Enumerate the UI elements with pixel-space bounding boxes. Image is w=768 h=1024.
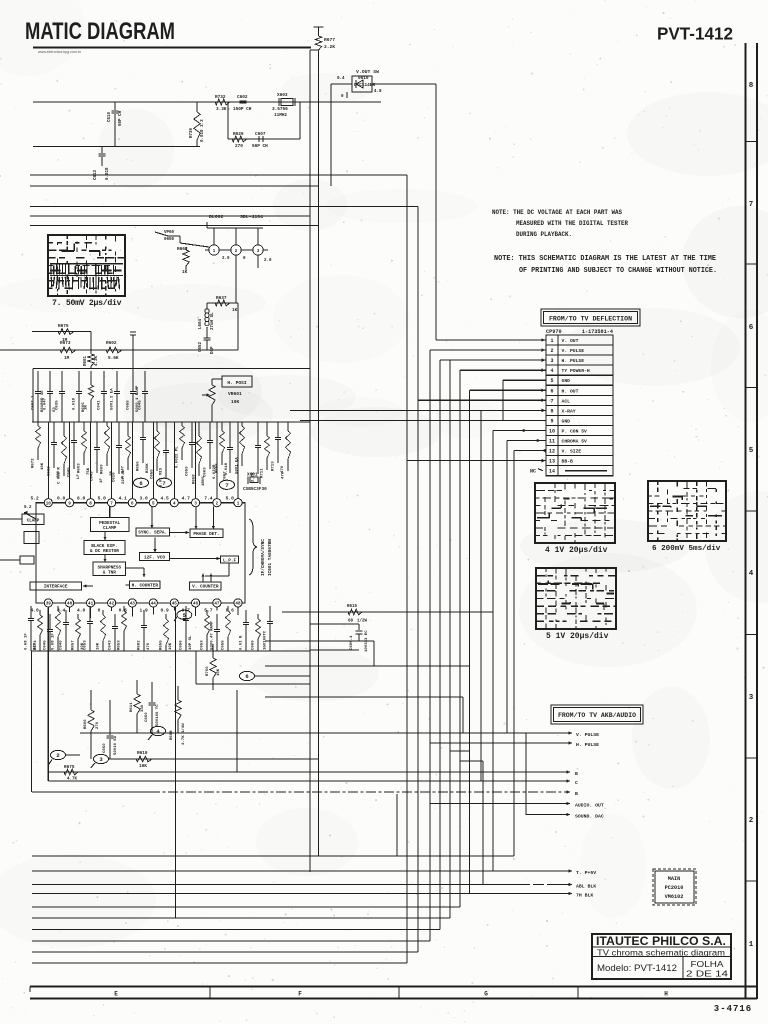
- svg-text:1K: 1K: [232, 308, 238, 313]
- svg-text:50V10 EA: 50V10 EA: [114, 735, 118, 755]
- svg-text:11MHz: 11MHz: [274, 113, 288, 118]
- svg-text:6: 6: [550, 388, 553, 394]
- svg-text:C613: C613: [94, 169, 98, 180]
- svg-text:R713: R713: [272, 461, 276, 471]
- svg-text:B: B: [575, 791, 578, 797]
- svg-text:L.P.F: L.P.F: [223, 558, 237, 563]
- svg-text:PC2010: PC2010: [665, 885, 684, 891]
- svg-text:2.7K: 2.7K: [252, 472, 256, 482]
- svg-text:www.eletronica.hpg.com.br: www.eletronica.hpg.com.br: [38, 50, 82, 54]
- svg-text:6: 6: [139, 480, 142, 487]
- svg-text:VR601: VR601: [228, 391, 242, 397]
- svg-text:Modelo: PVT-1412: Modelo: PVT-1412: [597, 963, 677, 973]
- svg-text:TV chroma schematic diagram: TV chroma schematic diagram: [597, 948, 725, 958]
- svg-text:R601: R601: [84, 355, 88, 366]
- svg-text:41: 41: [88, 602, 94, 607]
- svg-text:3: 3: [194, 502, 197, 507]
- svg-text:C669: C669: [252, 640, 256, 650]
- svg-text:FROM/TO TV DEFLECTION: FROM/TO TV DEFLECTION: [549, 316, 632, 323]
- svg-text:LF: LF: [77, 474, 81, 479]
- svg-text:0.9: 0.9: [161, 608, 170, 614]
- svg-text:ACL: ACL: [562, 398, 571, 404]
- svg-text:SOUND. DAC: SOUND. DAC: [575, 814, 604, 820]
- svg-text:AUDIO. OUT: AUDIO. OUT: [575, 803, 604, 809]
- svg-text:40: 40: [67, 602, 73, 607]
- svg-text:C655: C655: [127, 400, 131, 410]
- svg-text:2.0: 2.0: [222, 257, 230, 261]
- svg-text:H. PULSE: H. PULSE: [562, 358, 585, 364]
- svg-text:C645: C645: [139, 400, 143, 410]
- svg-text:X603: X603: [277, 93, 288, 98]
- svg-text:NC: NC: [530, 469, 536, 475]
- svg-text:R615: R615: [347, 605, 358, 609]
- svg-text:270: 270: [34, 642, 38, 650]
- svg-text:0.68 1F: 0.68 1F: [25, 633, 29, 650]
- svg-text:C 022 R: C 022 R: [58, 467, 62, 484]
- svg-text:150P CH: 150P CH: [233, 107, 252, 112]
- svg-text:10K: 10K: [139, 764, 147, 769]
- svg-text:C616: C616: [113, 472, 117, 482]
- svg-text:R609: R609: [101, 464, 105, 474]
- svg-text:4.8: 4.8: [374, 90, 382, 94]
- svg-text:SDL-4104: SDL-4104: [240, 214, 263, 220]
- svg-text:0: 0: [98, 608, 101, 614]
- svg-text:0.0022 PL: 0.0022 PL: [176, 446, 180, 468]
- svg-text:V. PULSE: V. PULSE: [562, 348, 585, 354]
- svg-text:2: 2: [550, 348, 553, 354]
- svg-text:F: F: [298, 991, 302, 998]
- svg-text:6.0: 6.0: [77, 496, 86, 502]
- svg-text:OF PRINTING AND SUBJECT TO CHA: OF PRINTING AND SUBJECT TO CHANGE WITHOU…: [519, 267, 717, 275]
- svg-text:R606: R606: [84, 719, 88, 729]
- svg-text:VM6102: VM6102: [665, 894, 684, 900]
- svg-text:0.4: 0.4: [337, 77, 345, 81]
- svg-text:1R: 1R: [85, 405, 89, 410]
- svg-text:270: 270: [96, 721, 100, 729]
- svg-text:R675: R675: [58, 324, 69, 329]
- svg-text:7.4: 7.4: [204, 496, 213, 502]
- svg-text:H: H: [664, 991, 668, 998]
- svg-text:10K: 10K: [231, 399, 240, 405]
- svg-text:44: 44: [151, 602, 157, 607]
- svg-text:R682: R682: [138, 640, 142, 650]
- svg-text:H. PULSE: H. PULSE: [576, 742, 599, 748]
- svg-text:R700: R700: [206, 666, 210, 676]
- svg-text:5.0: 5.0: [226, 496, 235, 502]
- svg-text:50V1.2 EA: 50V1.2 EA: [111, 388, 115, 410]
- svg-text:3: 3: [749, 694, 754, 702]
- svg-text:R677: R677: [324, 37, 335, 43]
- svg-text:5: 5: [749, 447, 754, 455]
- svg-text:R650: R650: [137, 461, 141, 471]
- svg-text:CLAMP: CLAMP: [27, 520, 40, 524]
- svg-text:270: 270: [235, 144, 243, 149]
- svg-text:3.3K: 3.3K: [216, 107, 227, 112]
- svg-text:R672: R672: [32, 458, 36, 468]
- svg-text:9: 9: [550, 418, 553, 424]
- svg-text:R655: R655: [160, 640, 164, 650]
- svg-text:DL602: DL602: [209, 214, 224, 220]
- svg-text:6: 6: [749, 324, 754, 332]
- svg-text:R711: R711: [261, 468, 265, 478]
- svg-text:1: 1: [237, 502, 240, 507]
- svg-text:50V1 EA: 50V1 EA: [236, 457, 240, 474]
- svg-text:2.2K: 2.2K: [324, 44, 335, 50]
- svg-text:H. COUNTER: H. COUNTER: [132, 583, 159, 588]
- svg-text:4.1: 4.1: [119, 496, 128, 502]
- svg-text:NOTE: THE DC VOLTAGE AT EACH P: NOTE: THE DC VOLTAGE AT EACH PART WAS: [492, 209, 622, 216]
- svg-text:FOLHA: FOLHA: [691, 959, 724, 969]
- svg-text:R653: R653: [118, 640, 122, 650]
- svg-text:R668: R668: [177, 247, 188, 252]
- svg-text:7: 7: [225, 482, 228, 489]
- svg-text:4.0: 4.0: [77, 608, 86, 614]
- svg-text:5.0: 5.0: [98, 496, 107, 502]
- svg-text:9: 9: [68, 502, 71, 507]
- svg-text:42: 42: [109, 602, 115, 607]
- svg-text:VP60: VP60: [164, 231, 175, 235]
- svg-text:GND: GND: [562, 418, 571, 424]
- svg-text:C: C: [575, 780, 578, 786]
- svg-text:C655: C655: [151, 469, 155, 479]
- svg-text:3.0: 3.0: [140, 496, 149, 502]
- svg-text:47: 47: [214, 602, 220, 607]
- svg-text:ABL BLK: ABL BLK: [576, 884, 596, 890]
- svg-text:0.01 M1S: 0.01 M1S: [160, 467, 164, 487]
- svg-text:C640: C640: [60, 640, 64, 650]
- svg-text:CP970: CP970: [546, 329, 562, 335]
- svg-text:7: 7: [550, 398, 553, 404]
- svg-text:10K: 10K: [217, 668, 221, 676]
- svg-text:& DC RESTOR: & DC RESTOR: [90, 549, 119, 554]
- svg-text:E: E: [114, 991, 118, 998]
- svg-text:T. P+5V: T. P+5V: [576, 870, 596, 876]
- svg-text:10K: 10K: [169, 642, 173, 650]
- svg-text:V.OUT SW: V.OUT SW: [356, 69, 379, 75]
- svg-text:MATIC DIAGRAM: MATIC DIAGRAM: [25, 18, 175, 45]
- svg-text:4: 4: [550, 368, 553, 374]
- svg-text:BB-B: BB-B: [562, 459, 573, 465]
- svg-text:V. COUNTER: V. COUNTER: [192, 585, 219, 590]
- svg-text:R656: R656: [216, 463, 220, 473]
- svg-text:45: 45: [172, 602, 178, 607]
- svg-text:C610: C610: [108, 111, 112, 122]
- svg-text:6 200mV 5ms/div: 6 200mV 5ms/div: [652, 545, 721, 553]
- svg-text:56P CH: 56P CH: [119, 110, 123, 126]
- svg-text:CLAMP: CLAMP: [103, 526, 117, 531]
- svg-text:1: 1: [550, 338, 553, 344]
- svg-text:0.047: 0.047: [122, 465, 126, 478]
- svg-text:4 1V 20µs/div: 4 1V 20µs/div: [545, 546, 608, 555]
- svg-text:1-173581-4: 1-173581-4: [582, 329, 613, 335]
- svg-text:C656: C656: [180, 640, 184, 650]
- svg-text:0.018: 0.018: [73, 397, 77, 410]
- svg-text:GND: GND: [562, 378, 571, 384]
- svg-text:TY POWER-H: TY POWER-H: [562, 368, 590, 374]
- svg-text:C653: C653: [201, 640, 205, 650]
- svg-text:3.5756: 3.5756: [272, 107, 288, 112]
- svg-text:68: 68: [348, 620, 354, 624]
- svg-text:C650: C650: [103, 743, 107, 753]
- svg-text:C649: C649: [91, 471, 95, 481]
- svg-text:12: 12: [549, 449, 555, 455]
- svg-text:ITAUTEC PHILCO S.A.: ITAUTEC PHILCO S.A.: [596, 936, 726, 948]
- svg-text:8: 8: [550, 408, 553, 414]
- svg-text:C607: C607: [255, 132, 266, 137]
- svg-text:10P SL: 10P SL: [189, 635, 193, 650]
- svg-text:0.01 B: 0.01 B: [240, 635, 244, 650]
- svg-text:R637: R637: [216, 296, 227, 301]
- svg-text:50V100 TC: 50V100 TC: [156, 704, 160, 726]
- svg-text:C695-1: C695-1: [350, 635, 354, 650]
- svg-text:H. OUT: H. OUT: [562, 388, 579, 394]
- svg-text:10: 10: [549, 428, 555, 434]
- svg-text:1: 1: [749, 941, 754, 949]
- svg-text:7: 7: [110, 502, 113, 507]
- svg-text:R732: R732: [215, 95, 226, 100]
- svg-text:4.5: 4.5: [161, 496, 170, 502]
- svg-text:C667: C667: [224, 471, 228, 481]
- svg-text:8: 8: [89, 502, 92, 507]
- svg-text:PHASE DET.: PHASE DET.: [193, 532, 219, 537]
- svg-text:2: 2: [749, 817, 754, 825]
- svg-text:R673: R673: [60, 341, 71, 346]
- svg-text:R730: R730: [190, 127, 194, 138]
- svg-text:L604: L604: [199, 318, 203, 329]
- svg-text:46: 46: [193, 602, 199, 607]
- svg-text:B: B: [575, 771, 578, 777]
- svg-text:G: G: [484, 991, 488, 998]
- svg-text:C602: C602: [237, 95, 248, 100]
- svg-text:R603: R603: [78, 463, 82, 473]
- svg-text:13: 13: [549, 459, 555, 465]
- svg-text:39: 39: [46, 602, 52, 607]
- svg-text:R675: R675: [64, 765, 75, 770]
- svg-text:SYNC. SEPA.: SYNC. SEPA.: [138, 531, 167, 536]
- svg-text:330: 330: [141, 704, 145, 712]
- svg-text:R602: R602: [106, 341, 117, 346]
- svg-text:IC601 TA8867BN: IC601 TA8867BN: [268, 539, 273, 576]
- svg-text:IF/CHROMA/SYNC: IF/CHROMA/SYNC: [261, 539, 266, 576]
- svg-text:11: 11: [549, 439, 555, 445]
- svg-text:10: 10: [46, 502, 52, 507]
- svg-text:C643: C643: [109, 640, 113, 650]
- svg-text:14: 14: [549, 469, 555, 475]
- svg-text:0610: 0610: [358, 76, 369, 81]
- svg-text:FROM/TO TV AKB/AUDIO: FROM/TO TV AKB/AUDIO: [558, 712, 636, 719]
- svg-text:& TNR: & TNR: [103, 570, 117, 575]
- svg-text:3: 3: [550, 358, 553, 364]
- svg-text:H. POSI: H. POSI: [227, 380, 247, 386]
- svg-text:5.6K: 5.6K: [108, 356, 119, 361]
- svg-text:R620: R620: [233, 132, 244, 137]
- svg-text:R30K: R30K: [146, 463, 150, 473]
- svg-text:5: 5: [550, 378, 553, 384]
- svg-text:R657: R657: [72, 640, 76, 650]
- svg-text:43: 43: [130, 602, 136, 607]
- svg-text:5.2: 5.2: [24, 506, 32, 510]
- svg-text:6: 6: [245, 673, 248, 680]
- svg-text:4.0: 4.0: [31, 608, 40, 614]
- svg-text:C660: C660: [145, 712, 149, 722]
- svg-text:CHROMA 5V: CHROMA 5V: [562, 439, 588, 445]
- svg-text:4: 4: [749, 570, 754, 578]
- svg-text:0.68 1F: 0.68 1F: [52, 633, 56, 650]
- svg-text:7. 50mV 2µs/div: 7. 50mV 2µs/div: [52, 298, 122, 308]
- svg-text:0.047: 0.047: [44, 397, 48, 410]
- svg-text:7H BLK: 7H BLK: [576, 893, 593, 899]
- svg-text:C663: C663: [204, 467, 208, 477]
- svg-text:4.7: 4.7: [182, 496, 191, 502]
- svg-text:1F: 1F: [100, 478, 104, 483]
- svg-text:C633: C633: [48, 466, 52, 476]
- svg-text:2 DE 14: 2 DE 14: [686, 969, 728, 979]
- svg-text:V. OUT: V. OUT: [562, 338, 579, 344]
- svg-text:1K: 1K: [182, 270, 188, 275]
- svg-text:INTERFACE: INTERFACE: [44, 585, 68, 590]
- svg-text:4.3K: 4.3K: [95, 355, 99, 366]
- svg-text:5.7: 5.7: [204, 608, 213, 614]
- svg-text:5.2: 5.2: [31, 496, 40, 502]
- svg-text:470: 470: [147, 642, 151, 650]
- svg-text:2: 2: [56, 752, 59, 759]
- svg-text:4: 4: [173, 502, 176, 507]
- svg-text:C641: C641: [98, 400, 102, 410]
- svg-text:53V0.47 RAMP: 53V0.47 RAMP: [211, 621, 215, 650]
- svg-text:6: 6: [131, 502, 134, 507]
- svg-text:0.0: 0.0: [57, 496, 66, 502]
- svg-text:7: 7: [749, 201, 754, 209]
- svg-text:R658: R658: [193, 474, 197, 484]
- svg-text:0.018: 0.018: [106, 167, 110, 180]
- svg-text:C645: C645: [44, 640, 48, 650]
- svg-text:PVT-1412: PVT-1412: [657, 24, 733, 44]
- svg-text:C659: C659: [186, 466, 190, 476]
- svg-text:DURING PLAYBACK.: DURING PLAYBACK.: [516, 231, 572, 238]
- svg-text:R611: R611: [130, 702, 134, 712]
- svg-text:470: 470: [282, 471, 286, 479]
- svg-text:10K: 10K: [97, 642, 101, 650]
- svg-text:5 1V 20µs/div: 5 1V 20µs/div: [546, 632, 609, 641]
- svg-text:R610: R610: [137, 751, 148, 756]
- svg-text:56P CH: 56P CH: [252, 144, 268, 149]
- svg-text:5: 5: [152, 502, 155, 507]
- svg-text:48: 48: [235, 602, 241, 607]
- svg-text:P. CON 5V: P. CON 5V: [562, 428, 588, 434]
- svg-text:27uH SL: 27uH SL: [211, 312, 215, 330]
- svg-text:NOTE: THIS SCHEMATIC DIAGRAM I: NOTE: THIS SCHEMATIC DIAGRAM IS THE LATE…: [494, 255, 716, 263]
- svg-text:MAIN: MAIN: [668, 876, 680, 882]
- svg-text:R698: R698: [170, 730, 174, 740]
- svg-text:12F. VCO: 12F. VCO: [144, 555, 165, 560]
- svg-text:C635: C635: [56, 400, 60, 410]
- svg-text:10K: 10K: [41, 462, 45, 470]
- svg-text:1GV100TC: 1GV100TC: [264, 630, 268, 650]
- svg-text:0650: 0650: [164, 238, 175, 242]
- svg-text:CSB5C3F30: CSB5C3F30: [243, 487, 267, 492]
- svg-text:8: 8: [749, 82, 754, 90]
- svg-text:4.7K 1/4W: 4.7K 1/4W: [181, 723, 186, 745]
- svg-text:V. SIZE: V. SIZE: [562, 449, 582, 455]
- svg-text:C653: C653: [84, 640, 88, 650]
- svg-text:X-RAY: X-RAY: [562, 408, 576, 414]
- svg-text:C645: C645: [68, 467, 72, 477]
- svg-text:3-4716: 3-4716: [714, 1004, 752, 1014]
- svg-text:V. PULSE: V. PULSE: [576, 732, 599, 738]
- svg-text:0.018 3.3: 0.018 3.3: [201, 119, 205, 142]
- svg-text:1M: 1M: [64, 356, 70, 361]
- svg-text:C655: C655: [222, 640, 226, 650]
- svg-text:2.0: 2.0: [264, 259, 272, 263]
- svg-text:MEASURED WITH THE DIGITAL TEST: MEASURED WITH THE DIGITAL TESTER: [516, 220, 628, 227]
- svg-text:1/2W: 1/2W: [357, 619, 368, 624]
- svg-text:2: 2: [216, 502, 219, 507]
